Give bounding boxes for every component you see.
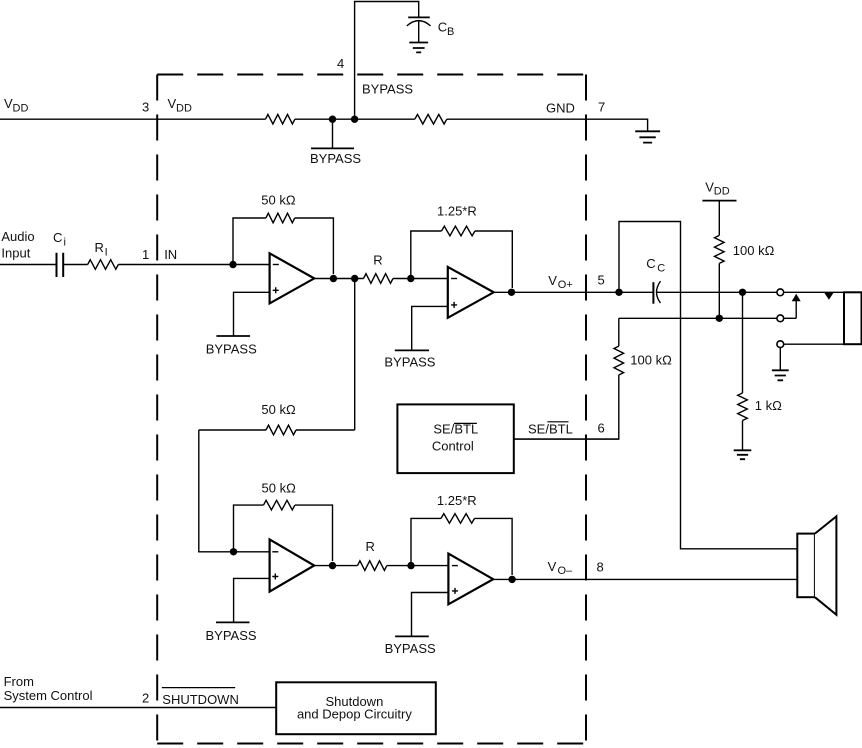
- pin 3 label: [142, 100, 149, 115]
- wire U4 output to pin 8 and speaker: [493, 578, 797, 580]
- resistor (VDD rail, left): [266, 114, 295, 124]
- wire U1 output: [314, 278, 363, 280]
- label 1.25*R (U2 feedback): [437, 203, 477, 218]
- ground (GND pin): [635, 131, 660, 142]
- label 100 kOhm (SE/BTL): [630, 353, 672, 368]
- label From System Control: [4, 674, 93, 703]
- label VO+: [548, 273, 572, 291]
- svg-text:C: C: [438, 19, 447, 34]
- svg-text:3: 3: [142, 100, 149, 115]
- svg-text:SE/BTL: SE/BTL: [528, 422, 573, 437]
- svg-text:C: C: [657, 262, 665, 274]
- node (U4 inverting input): [407, 562, 414, 569]
- svg-text:O–: O–: [558, 565, 574, 577]
- pin 7 label: [598, 100, 605, 115]
- shutdown and depop circuitry block: [276, 682, 436, 734]
- wire feedback loop U1: [233, 218, 333, 274]
- op-amp U1: [270, 253, 315, 303]
- svg-text:I: I: [105, 247, 108, 259]
- capacitor CB: [407, 17, 431, 42]
- label R (U1 to U2): [373, 253, 382, 268]
- label 50 kOhm (lower channel input): [261, 402, 296, 417]
- wire sleeve circle to jack body: [784, 343, 844, 345]
- wire VDD rail middle: [295, 118, 415, 120]
- jack plug arrow (down): [824, 293, 833, 300]
- svg-text:Audio: Audio: [1, 229, 34, 244]
- wire Ci to RI: [63, 264, 87, 266]
- svg-text:DD: DD: [13, 103, 29, 115]
- svg-text:GND: GND: [546, 100, 575, 115]
- jack ring contact circle: [777, 315, 784, 322]
- svg-text:1.25*R: 1.25*R: [437, 203, 477, 218]
- resistor R (U3 to U4): [358, 561, 387, 571]
- label 1 kOhm: [755, 398, 782, 413]
- wire ring to 100 kOhm SE/BTL leg: [514, 318, 619, 439]
- svg-text:BYPASS: BYPASS: [384, 355, 435, 370]
- wire CC to jack tip: [657, 291, 777, 293]
- wire U3 non-inverting input to BYPASS terminal: [216, 578, 269, 622]
- svg-text:BYPASS: BYPASS: [206, 342, 257, 357]
- svg-text:7: 7: [598, 100, 605, 115]
- op-amp U2: [448, 267, 494, 318]
- svg-text:6: 6: [598, 421, 605, 436]
- jack sleeve contact circle: [777, 341, 784, 348]
- ground (under CB): [409, 43, 428, 53]
- svg-text:B: B: [447, 26, 454, 38]
- pin 2 label: [142, 691, 149, 706]
- label RI: [95, 240, 108, 259]
- svg-text:C: C: [646, 256, 655, 271]
- ground (jack sleeve): [772, 370, 789, 380]
- svg-text:V: V: [548, 559, 557, 574]
- wire system control to shutdown block: [0, 707, 276, 709]
- node (VO+ at pin 5): [615, 289, 622, 296]
- label 100 kOhm (pull-up): [733, 243, 775, 258]
- label VDD (external, pin 3): [4, 96, 28, 115]
- resistor R (U1 to U2): [364, 274, 394, 284]
- label BYPASS (U4): [385, 641, 436, 656]
- pin 5 label: [598, 273, 605, 288]
- node (U1 output, feedback): [330, 275, 337, 282]
- label SHUTDOWN (with overline): [162, 688, 239, 707]
- label CC: [646, 256, 665, 274]
- label 50 kOhm (U1 feedback): [261, 193, 296, 208]
- speaker: [797, 516, 836, 615]
- wire feedback loop U4: [411, 518, 512, 575]
- wire feedback loop U2: [411, 231, 513, 288]
- node (U1 output, lower-channel tap): [351, 275, 358, 282]
- svg-text:BYPASS: BYPASS: [362, 82, 413, 97]
- pin 6 label: [598, 421, 605, 436]
- jack tip contact circle: [777, 289, 784, 296]
- svg-text:O+: O+: [558, 279, 573, 291]
- wire sleeve to ground: [779, 348, 781, 371]
- node (U2 inverting input): [407, 275, 414, 282]
- label VDD (pull-up): [705, 179, 729, 197]
- resistor 100 kOhm (pull-up): [715, 235, 725, 263]
- label 1.25*R (U4 feedback): [437, 493, 477, 508]
- IC boundary dashed box: [157, 75, 586, 744]
- wire audio input to Ci: [0, 264, 57, 266]
- svg-text:R: R: [373, 253, 382, 268]
- VDD terminal (pull-up): [702, 201, 736, 236]
- svg-text:BYPASS: BYPASS: [206, 628, 257, 643]
- label IN: [164, 247, 177, 262]
- resistor 1 kOhm: [738, 393, 748, 421]
- pin 1 label: [142, 247, 149, 262]
- svg-text:IN: IN: [164, 247, 177, 262]
- svg-text:V: V: [548, 273, 557, 288]
- label BYPASS (U2): [384, 355, 435, 370]
- svg-text:Input: Input: [1, 245, 30, 260]
- svg-text:1: 1: [142, 247, 149, 262]
- node (U2 output): [508, 289, 515, 296]
- ground (1 kOhm): [734, 450, 752, 459]
- svg-text:C: C: [53, 230, 62, 245]
- resistor 1.25*R (U2 feedback): [442, 226, 475, 236]
- resistor 50 kOhm (U1 feedback): [266, 213, 295, 223]
- svg-text:100 kΩ: 100 kΩ: [630, 353, 672, 368]
- resistor (VDD rail, right): [415, 114, 447, 124]
- svg-text:50 kΩ: 50 kΩ: [262, 481, 297, 496]
- wire VO+ bypass loop to speaker: [619, 222, 797, 549]
- wire lower channel tap down to 50 kOhm input resistor: [199, 279, 355, 552]
- label R (U3 to U4): [366, 539, 375, 554]
- resistor 1.25*R (U4 feedback): [441, 514, 475, 524]
- svg-text:R: R: [95, 240, 104, 255]
- wire from pin 4 node up and across to CB: [355, 2, 419, 120]
- node (VDD rail, pin 4 riser): [351, 116, 358, 123]
- wire ring (SE/BTL sense): [619, 317, 777, 319]
- node (U3 output): [329, 562, 336, 569]
- label SE/BTL (pin 6, with overline): [528, 422, 573, 437]
- label VDD (internal): [168, 96, 192, 115]
- label BYPASS (U3): [206, 628, 257, 643]
- op-amp U3: [270, 539, 315, 591]
- jack switch arrow (up): [792, 294, 801, 319]
- wire U4 non-inverting input to BYPASS terminal: [395, 593, 449, 637]
- label CB: [438, 19, 455, 38]
- svg-text:5: 5: [598, 273, 605, 288]
- wire U1 non-inverting input to BYPASS terminal: [216, 292, 269, 336]
- svg-text:Control: Control: [432, 439, 474, 454]
- svg-text:50 kΩ: 50 kΩ: [261, 402, 296, 417]
- wire tip circle to jack body: [784, 291, 844, 293]
- label Audio Input: [1, 229, 34, 260]
- wire VDD rail left: [0, 118, 266, 120]
- svg-text:DD: DD: [176, 103, 192, 115]
- label Ci: [53, 230, 66, 249]
- svg-text:and Depop Circuitry: and Depop Circuitry: [297, 707, 412, 722]
- label GND: [546, 100, 575, 115]
- svg-text:100 kΩ: 100 kΩ: [733, 243, 775, 258]
- svg-text:R: R: [366, 539, 375, 554]
- label BYPASS (U1): [206, 342, 257, 357]
- svg-text:2: 2: [142, 691, 149, 706]
- label BYPASS (below VDD rail): [310, 151, 361, 166]
- capacitor Ci: [57, 253, 64, 277]
- wire R to U4 inverting input: [387, 565, 449, 567]
- op-amp U4: [448, 554, 493, 605]
- pin 8 label: [597, 559, 604, 574]
- BYPASS terminal (below VDD rail): [311, 119, 354, 148]
- svg-text:i: i: [64, 237, 66, 249]
- wire SE/BTL block to pin 6: [514, 438, 619, 440]
- svg-text:50 kΩ: 50 kΩ: [261, 193, 296, 208]
- wire U2 non-inverting input to BYPASS terminal: [395, 306, 448, 350]
- wire RI to IN node: [118, 264, 269, 266]
- svg-text:System Control: System Control: [4, 688, 93, 703]
- svg-text:BYPASS: BYPASS: [385, 641, 436, 656]
- node (1 kOhm tap): [739, 289, 746, 296]
- node (op-amp U1 inverting input): [229, 261, 236, 268]
- pin 4 label: [337, 56, 344, 71]
- wire 1 kOhm leg: [742, 292, 744, 450]
- svg-text:8: 8: [597, 559, 604, 574]
- label VO-: [548, 559, 573, 577]
- svg-text:SHUTDOWN: SHUTDOWN: [162, 692, 239, 707]
- wire feedback loop U3: [234, 505, 333, 561]
- node (op-amp U3 inverting input): [230, 548, 237, 555]
- svg-text:4: 4: [337, 56, 344, 71]
- wire R to U2 inverting input: [393, 278, 448, 280]
- resistor 100 kOhm (SE/BTL): [614, 346, 624, 375]
- resistor RI: [88, 260, 119, 270]
- SE/BTL control block: [397, 404, 513, 473]
- wire ring circle to switch: [784, 317, 797, 319]
- wire U2 output to pin 5: [494, 291, 654, 293]
- node (VDD rail, bypass tap): [329, 116, 336, 123]
- node (U4 output): [508, 576, 515, 583]
- wire VDD rail to GND pin and ground: [447, 119, 648, 131]
- svg-text:DD: DD: [714, 185, 730, 197]
- wire 100 kOhm pull-up to ring wire: [718, 263, 720, 318]
- headphone jack body: [844, 292, 862, 344]
- svg-text:BYPASS: BYPASS: [310, 151, 361, 166]
- svg-text:1.25*R: 1.25*R: [437, 493, 477, 508]
- resistor 50 kOhm (U3 feedback): [264, 500, 295, 510]
- node BYPASS label (pin 4): [362, 82, 413, 97]
- capacitor CC: [653, 281, 660, 304]
- resistor 50 kOhm (lower channel input): [266, 425, 296, 435]
- node (ring wire, pull-up): [716, 315, 723, 322]
- wire U3 output: [314, 565, 357, 567]
- label 50 kOhm (U3 feedback): [262, 481, 297, 496]
- svg-text:1 kΩ: 1 kΩ: [755, 398, 782, 413]
